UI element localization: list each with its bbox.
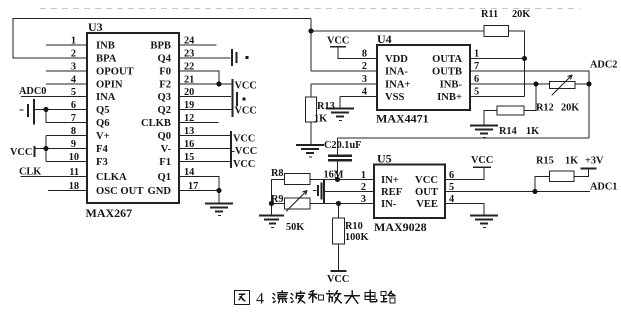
svg-text:VEE: VEE (416, 199, 438, 210)
svg-text:Q2: Q2 (157, 105, 171, 116)
caption char 和 (309, 291, 324, 303)
svg-text:ADC2: ADC2 (590, 60, 617, 71)
scan artifact dotted line (40, 8, 580, 10)
svg-text:-VCC: -VCC (232, 146, 258, 157)
capacitor dot pin23 (245, 56, 248, 59)
svg-text:R14: R14 (499, 126, 517, 137)
svg-text:1K: 1K (314, 114, 327, 125)
svg-text:18: 18 (69, 181, 79, 192)
svg-text:Q0: Q0 (157, 131, 171, 142)
svg-text:F1: F1 (159, 157, 171, 168)
svg-text:VCC: VCC (471, 155, 493, 166)
svg-text:R15: R15 (536, 156, 554, 167)
svg-text:VCC: VCC (10, 147, 32, 158)
junction U3 pin17 ground (216, 188, 221, 193)
capacitor glyph at U3 pin6 (20, 109, 24, 111)
svg-text:VCC: VCC (235, 81, 257, 92)
op-amp U4 MAX4471 box (377, 45, 470, 110)
junction R10 / U5 IN- (336, 201, 341, 206)
svg-text:F2: F2 (159, 80, 171, 91)
wire U4 pin4 VSS to ground (340, 96, 377, 98)
junction node ADC2 (586, 81, 591, 86)
arrow of R12 (552, 75, 573, 96)
svg-text:5: 5 (449, 182, 454, 193)
resistor R8 body (285, 174, 311, 185)
svg-text:INB+: INB+ (437, 92, 462, 103)
svg-text:4: 4 (256, 291, 264, 308)
wire U3 pin24 BPB (179, 44, 217, 46)
svg-text:Q5: Q5 (96, 105, 110, 116)
wire VCC to U3 pins 8,9,10 (35, 148, 87, 150)
wire U5 pin4 VEE to ground (445, 204, 484, 215)
svg-text:OUT: OUT (415, 187, 438, 198)
svg-text:R13: R13 (317, 101, 335, 112)
svg-text:20K: 20K (561, 103, 579, 114)
wire R15 left down to OUT (535, 177, 550, 192)
svg-text:F4: F4 (96, 144, 108, 155)
svg-text:17: 17 (188, 181, 198, 192)
svg-text:INB: INB (96, 41, 115, 52)
svg-text:20K: 20K (512, 9, 530, 20)
wire U3 pin1 INB (46, 44, 87, 46)
svg-text:F3: F3 (96, 157, 108, 168)
wire U3 pin8 V+ (46, 135, 87, 137)
wire U3 pin21 F2 to VCC (179, 83, 232, 85)
wire U5 pin1 IN+ (324, 179, 374, 181)
svg-text:2: 2 (361, 182, 366, 193)
svg-text:MAX9028: MAX9028 (374, 220, 427, 234)
svg-text:4: 4 (71, 75, 76, 86)
svg-text:Q6: Q6 (96, 118, 110, 129)
svg-text:3: 3 (362, 74, 367, 85)
svg-text:1: 1 (474, 49, 479, 60)
node bar joining R8/R9 to U5 inputs (323, 180, 325, 204)
caption char 放 (327, 291, 342, 304)
svg-text:6: 6 (71, 100, 76, 111)
svg-text:11: 11 (69, 167, 79, 178)
wire R8 left down to ground node (272, 180, 285, 204)
svg-text:VCC: VCC (327, 36, 349, 47)
wire U4 pin1 OUTA (470, 58, 525, 60)
power VCC tick above U5 (473, 166, 491, 168)
svg-text:1K: 1K (526, 126, 539, 137)
junction R12 left / R14 / INB- (533, 81, 538, 86)
svg-text:U3: U3 (88, 20, 103, 34)
svg-text:20: 20 (184, 87, 194, 98)
svg-text:VCC: VCC (327, 274, 349, 285)
node junction at top rail to R11/U4 (310, 19, 312, 72)
wire U3 pin15 F1 (179, 161, 231, 163)
resistor R10 body (338, 204, 340, 219)
wire U3 pin22 F0 tied down to pin21 (179, 71, 219, 84)
caption char 电 (365, 290, 377, 302)
wire U4 pin2 INA- from feedback node (311, 70, 377, 72)
wire U3 pin3 OPOUT (46, 70, 87, 72)
svg-text:ADC1: ADC1 (590, 182, 617, 193)
svg-text:MAX4471: MAX4471 (376, 112, 429, 126)
svg-text:R10: R10 (345, 221, 363, 232)
wire U4 pin3 INA+ (311, 83, 377, 85)
svg-text:5: 5 (474, 87, 479, 98)
caption char 滤 (273, 291, 288, 304)
wire to resistor R11 left (311, 30, 484, 32)
svg-text:F0: F0 (159, 67, 171, 78)
svg-text:7: 7 (71, 113, 76, 124)
caption char 路 (381, 291, 396, 303)
svg-text:IN-: IN- (381, 199, 397, 210)
wire U5 pin3 IN- (324, 203, 374, 205)
ground below U3 pin17 (205, 203, 233, 205)
svg-text:21: 21 (184, 75, 194, 86)
junction VCC pins 8-10 (43, 146, 48, 151)
svg-text:GND: GND (147, 186, 171, 197)
svg-text:Q4: Q4 (157, 54, 171, 65)
wire C20 coupling rail (338, 137, 590, 139)
svg-text:100K: 100K (345, 232, 368, 243)
svg-text:BPB: BPB (150, 41, 171, 52)
svg-text:4: 4 (449, 194, 454, 205)
ground below U5 VEE (470, 215, 498, 217)
wire U4 pin5 INB+ (470, 96, 525, 98)
svg-text:OPIN: OPIN (96, 80, 123, 91)
svg-text:7: 7 (474, 61, 479, 72)
svg-text:INA+: INA+ (385, 80, 410, 91)
svg-text:IN+: IN+ (381, 175, 399, 186)
IC U3 MAX267 (filter) box (87, 33, 179, 203)
svg-text:3: 3 (71, 62, 76, 73)
capacitor glyph at U3 pin23 (231, 49, 233, 66)
comparator U5 MAX9028 box (374, 165, 445, 219)
wire U3 pin17 GND (179, 191, 219, 203)
wire VCC to U4 pin8 VDD (338, 47, 377, 59)
wire R14 right up to R12 left node (524, 84, 536, 111)
svg-text:INA: INA (96, 92, 116, 103)
svg-text:22: 22 (184, 62, 194, 73)
junction R15 / OUT (532, 189, 537, 194)
svg-text:1: 1 (361, 170, 366, 181)
capacitor dot pin20 (242, 97, 245, 100)
svg-text:10: 10 (69, 152, 79, 163)
svg-text:15: 15 (184, 152, 194, 163)
wire R9 left (272, 203, 285, 205)
caption: 图 4 滤波和放大电路 (235, 290, 396, 305)
svg-text:VCC: VCC (233, 159, 255, 170)
wire R13 bottom to ground (310, 122, 312, 144)
wire U4 pin6 INB- to R12 (470, 83, 550, 85)
power VCC symbol above U4 (330, 46, 346, 48)
svg-text:OUTA: OUTA (432, 54, 462, 65)
svg-text:16: 16 (184, 139, 194, 150)
svg-text:+3V: +3V (585, 156, 604, 167)
svg-text:ADC0: ADC0 (19, 86, 46, 97)
svg-text:19: 19 (184, 100, 194, 111)
wire R11 right down to OUTA and INB+ (509, 31, 525, 97)
svg-text:14: 14 (184, 167, 194, 178)
wire U5 pin6 VCC (445, 168, 484, 180)
wire U3 pin13 Q0 to VCC (179, 135, 231, 137)
svg-text:V+: V+ (96, 131, 110, 142)
wire U3 pin16 V- (179, 148, 231, 150)
svg-text:VCC: VCC (233, 134, 255, 145)
svg-text:OSC OUT: OSC OUT (96, 186, 143, 197)
junction C20 / U5 IN+ (335, 177, 340, 182)
wire U5 pin2 REF (324, 191, 374, 193)
svg-text:1K: 1K (565, 156, 578, 167)
svg-text:CLK: CLK (19, 167, 41, 178)
svg-text:8: 8 (362, 49, 367, 60)
wire U3 pin19 Q2 to VCC (179, 109, 232, 111)
svg-text:VCC: VCC (235, 106, 257, 117)
svg-text:VDD: VDD (385, 54, 408, 65)
wire U3 pin14 Q1 tied to pin17 (179, 177, 219, 191)
wire U3 pin10 F3 (46, 161, 87, 163)
wire R12 right to node ADC2 (575, 83, 589, 85)
wire U3 pin6 Q5 (35, 109, 87, 111)
junction at feedback node (308, 28, 313, 33)
svg-text:5: 5 (71, 87, 76, 98)
svg-text:9: 9 (71, 139, 76, 150)
caption char 大 (345, 291, 360, 304)
power +3V tick (581, 168, 597, 170)
junction R8/R9 ground node (269, 201, 274, 206)
arrow of R9 (286, 191, 307, 212)
wire R8 right (310, 179, 324, 181)
capacitor glyph at U3 pin20 / VCC bar (232, 79, 234, 117)
junction U3 pin6/pin7 (43, 107, 48, 112)
svg-text:6: 6 (449, 170, 454, 181)
junction OUTA/R11 (522, 56, 527, 61)
ground below R14 left (470, 125, 498, 127)
svg-text:2: 2 (71, 49, 76, 60)
svg-text:BPA: BPA (96, 54, 117, 65)
svg-text:CLKB: CLKB (141, 118, 171, 129)
wire U3 pin4 OPIN (46, 83, 87, 85)
wire U3 pin5 INA (node ADC0) (21, 96, 87, 98)
caption char 波 (291, 291, 306, 303)
resistor R12 body (variable) (550, 82, 576, 89)
svg-text:2: 2 (362, 61, 367, 72)
wire R15 right up to +3V (574, 169, 589, 177)
svg-text:REF: REF (381, 187, 402, 198)
svg-text:6: 6 (474, 74, 479, 85)
resistor R15 body (550, 171, 575, 182)
ground below R8/R9 (271, 204, 273, 215)
wire U3 pin7 Q6 tied to pin6 (46, 110, 87, 123)
resistor R13 body (310, 84, 312, 97)
power VCC tick below R10 (331, 270, 347, 272)
svg-text:23: 23 (184, 49, 194, 60)
svg-text:MAX267: MAX267 (86, 206, 133, 220)
junction U3 pin21/22 (216, 81, 221, 86)
resistor R9 body (variable) (285, 198, 311, 209)
caption char 图 (235, 291, 250, 305)
svg-text:12: 12 (184, 113, 194, 124)
capacitor C20 (337, 138, 339, 155)
svg-text:50K: 50K (286, 222, 304, 233)
wire U3 pin18 OSC OUT (48, 190, 87, 192)
VCC bar at U3 pins 13-15 (230, 131, 232, 168)
svg-text:INA-: INA- (385, 67, 408, 78)
wire U3 pin20 Q3 (179, 96, 231, 98)
svg-text:R8: R8 (271, 168, 284, 179)
wire U3 pin23 Q4 (179, 57, 231, 59)
svg-text:3: 3 (361, 194, 366, 205)
svg-text:OUTB: OUTB (432, 67, 462, 78)
svg-text:8: 8 (71, 126, 76, 137)
svg-text:VSS: VSS (385, 92, 405, 103)
svg-text:R12: R12 (536, 103, 554, 114)
svg-text:Q3: Q3 (157, 92, 171, 103)
ground below U4 VSS (326, 108, 354, 110)
svg-text:1: 1 (71, 36, 76, 47)
ground below R13 (296, 144, 324, 146)
wire R14 left to ground (484, 111, 497, 125)
wire BPA feedback: U3 pin2 to top rail (13, 19, 311, 59)
svg-text:U5: U5 (377, 152, 392, 166)
capacitor glyph left of U5 (313, 190, 317, 192)
resistor R11 body (484, 26, 509, 37)
svg-text:INB-: INB- (440, 80, 463, 91)
svg-text:16M: 16M (324, 170, 344, 181)
svg-text:CLKA: CLKA (96, 172, 127, 183)
svg-text:R9: R9 (271, 194, 284, 205)
svg-text:4: 4 (362, 87, 367, 98)
svg-text:24: 24 (184, 36, 194, 47)
resistor R14 body (497, 106, 524, 115)
wire U3 pin12 CLKB (179, 122, 219, 124)
wire R10 bottom to VCC (338, 244, 340, 271)
svg-text:C20.1uF: C20.1uF (324, 140, 361, 151)
power VCC tick (left) (34, 146, 36, 157)
svg-text:VCC: VCC (415, 175, 438, 186)
svg-text:Q1: Q1 (157, 172, 171, 183)
svg-text:OPOUT: OPOUT (96, 67, 134, 78)
wire R9 right (310, 203, 324, 205)
wire CLK to U3 pin11 CLKA (21, 176, 88, 178)
svg-text:R11: R11 (481, 9, 498, 20)
wire U5 pin5 OUT to node ADC1 (445, 191, 590, 193)
svg-text:U4: U4 (377, 32, 392, 46)
svg-text:13: 13 (184, 126, 194, 137)
svg-text:V-: V- (161, 144, 172, 155)
wire U4 pin7 OUTB to ADC2 column (470, 71, 589, 84)
wire ADC2 column down to C20 rail (588, 84, 590, 138)
